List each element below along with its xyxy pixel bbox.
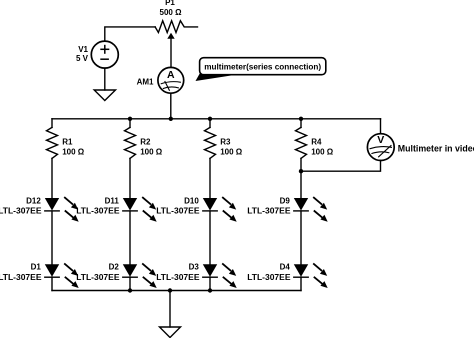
svg-text:100 Ω: 100 Ω [220,147,243,156]
svg-text:LTL-307EE: LTL-307EE [76,272,120,282]
svg-text:AM1: AM1 [137,77,154,86]
svg-text:LTL-307EE: LTL-307EE [76,206,120,216]
svg-text:R2: R2 [140,138,151,147]
svg-text:D1: D1 [31,263,42,272]
svg-text:LTL-307EE: LTL-307EE [0,206,42,216]
svg-text:100 Ω: 100 Ω [311,147,334,156]
svg-text:5 V: 5 V [76,54,89,63]
svg-text:500 Ω: 500 Ω [160,8,183,17]
svg-text:multimeter(series connection): multimeter(series connection) [204,63,321,72]
svg-text:LTL-307EE: LTL-307EE [247,206,291,216]
svg-text:Multimeter in video: Multimeter in video [398,143,474,153]
svg-text:D12: D12 [26,196,41,205]
svg-text:D4: D4 [280,263,291,272]
svg-text:R4: R4 [311,138,322,147]
svg-text:V1: V1 [78,45,88,54]
svg-text:V: V [377,134,384,146]
svg-text:LTL-307EE: LTL-307EE [156,272,200,282]
svg-text:D11: D11 [105,196,120,205]
svg-text:100 Ω: 100 Ω [62,147,85,156]
svg-text:LTL-307EE: LTL-307EE [247,272,291,282]
svg-text:D10: D10 [184,196,199,205]
svg-text:A: A [167,69,175,81]
svg-text:D2: D2 [109,263,120,272]
svg-text:LTL-307EE: LTL-307EE [156,206,200,216]
svg-text:LTL-307EE: LTL-307EE [0,272,42,282]
svg-text:D3: D3 [189,263,200,272]
svg-text:R1: R1 [62,138,73,147]
svg-text:100 Ω: 100 Ω [140,147,163,156]
svg-text:R3: R3 [220,138,231,147]
svg-text:D9: D9 [280,196,291,205]
svg-text:P1: P1 [165,0,175,7]
